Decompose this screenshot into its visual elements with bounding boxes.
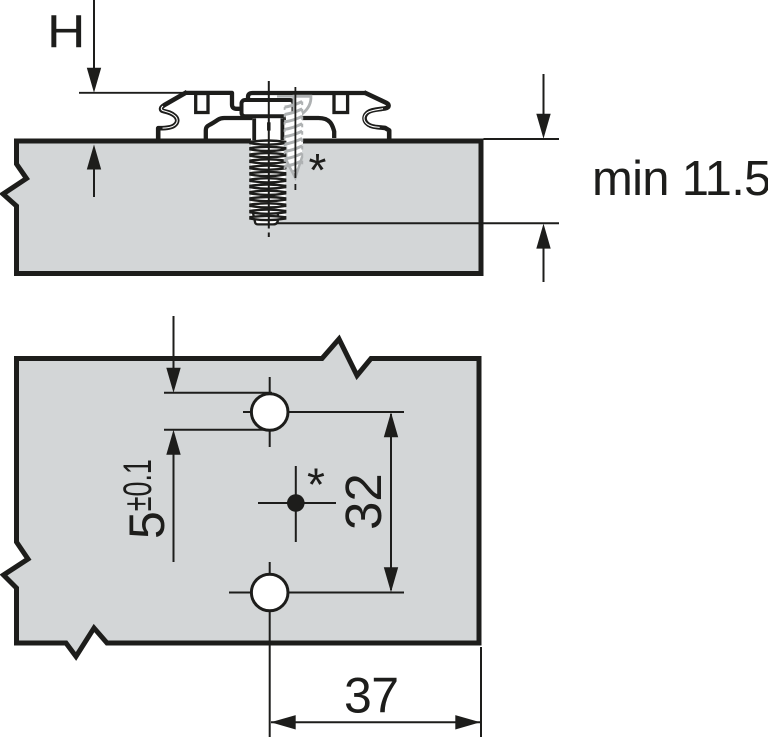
- mounting plate: left wing slope and hook: [158, 92, 187, 139]
- plate slot (left notch): [196, 94, 208, 113]
- svg-text:37: 37: [344, 668, 399, 724]
- euro screw tip: [253, 212, 278, 225]
- dimension 5 +-0.1: [166, 316, 180, 562]
- pre-mounted screw tip: [286, 157, 302, 178]
- pre-mounted screw (gray) head: [294, 96, 311, 117]
- plate base: left mound: [206, 118, 253, 139]
- euro screw head block: [242, 100, 294, 116]
- mounting plate: left top bar: [185, 93, 243, 109]
- euro screw body tick: [267, 122, 271, 130]
- extension line above hole 1 (tangent top): [164, 392, 272, 394]
- board top-view panel: [4, 339, 480, 657]
- dimension H: [79, 0, 184, 197]
- dimension min 11.5: [536, 74, 550, 282]
- extension line below hole 1 (tangent bottom): [164, 429, 276, 431]
- svg-text:H: H: [47, 6, 86, 58]
- euro screw body: [252, 118, 284, 142]
- pre-mounted screw coil thread: [285, 102, 303, 108]
- dimension 32: [384, 412, 398, 592]
- hole 2: [251, 574, 288, 611]
- dimension 37: [271, 715, 481, 729]
- svg-text:min 11.5: min 11.5: [592, 152, 768, 206]
- mounting plate: right wing slope and hook: [364, 92, 389, 138]
- euro screw thread backdrop: [251, 140, 286, 218]
- system screw position dot: [287, 494, 305, 512]
- euro screw threads: [250, 141, 285, 145]
- system screw position cross: [295, 466, 297, 542]
- board cross-section (side view): [3, 141, 481, 274]
- extension line from panel right edge: [480, 647, 482, 737]
- mounting plate: right top bar: [248, 93, 366, 101]
- right hook inner white fold line: [364, 109, 383, 128]
- pre-mounted screw shaft backdrop: [286, 112, 303, 178]
- min drilling-depth line: [255, 222, 559, 224]
- euro screw center line: [268, 81, 270, 229]
- hole 2 center lines: [269, 562, 271, 737]
- hole 1: [251, 394, 288, 431]
- left hook inner white fold line: [161, 106, 177, 128]
- plate base: right mound: [283, 118, 334, 138]
- extension line at board top edge: [484, 138, 560, 140]
- plate slot (right notch): [334, 94, 348, 113]
- svg-text:*: *: [307, 459, 325, 511]
- svg-text:*: *: [309, 144, 327, 196]
- pre-mounted screw center line: [294, 87, 296, 178]
- hole 1 center lines: [269, 377, 271, 447]
- gap in board edge for screws: [251, 138, 303, 144]
- svg-text:32: 32: [335, 473, 392, 530]
